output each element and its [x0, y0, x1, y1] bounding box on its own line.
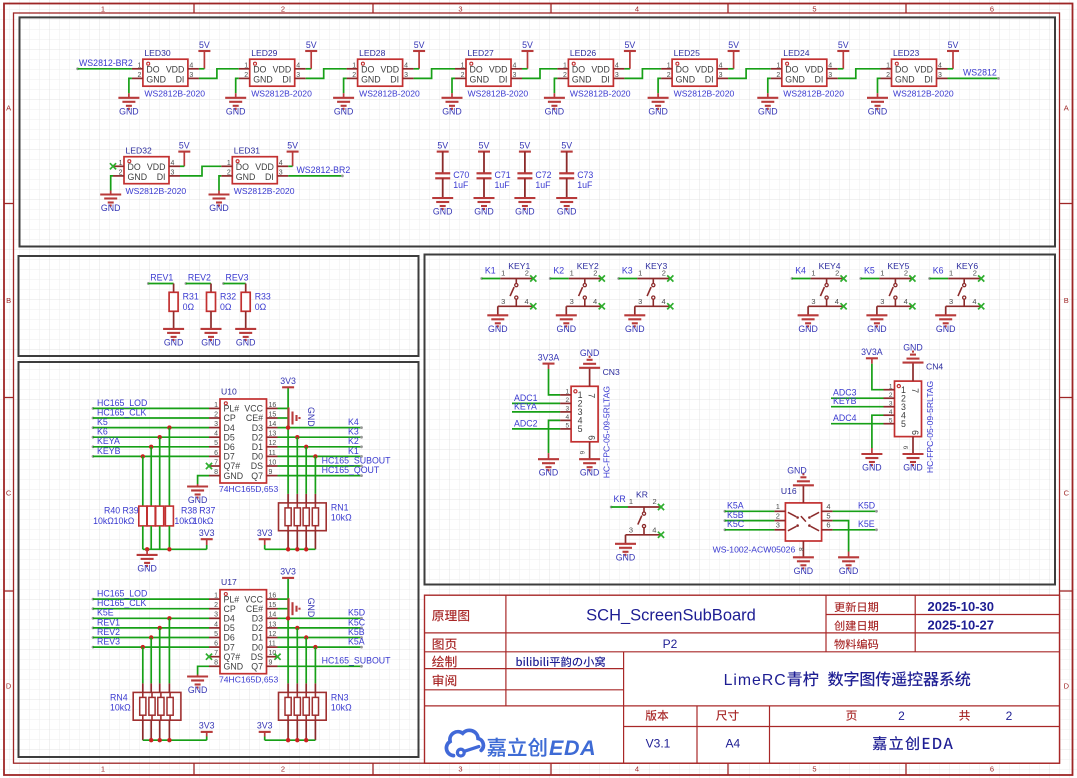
- svg-text:12: 12: [269, 631, 277, 638]
- net label KEYB wire to U10 pin 6: [92, 446, 209, 459]
- svg-text:GND: GND: [128, 172, 148, 182]
- capacitor C72 1uF with 5V and ground: [514, 140, 551, 216]
- svg-text:GND: GND: [474, 207, 494, 217]
- svg-text:5V: 5V: [948, 40, 959, 50]
- svg-text:REV2: REV2: [97, 627, 120, 637]
- svg-text:3: 3: [171, 170, 175, 177]
- svg-text:GND: GND: [119, 106, 139, 116]
- svg-text:1: 1: [629, 497, 633, 506]
- ground below CN3 pin 6: [579, 459, 600, 478]
- svg-text:K3: K3: [622, 265, 633, 275]
- svg-text:GND: GND: [794, 566, 814, 576]
- ground at LED23: [867, 78, 888, 116]
- svg-text:GND: GND: [572, 75, 592, 85]
- LED LED25 WS2812B-2020: [661, 48, 734, 98]
- svg-text:2: 2: [214, 411, 218, 418]
- svg-text:LED25: LED25: [674, 48, 700, 58]
- svg-text:C: C: [1064, 489, 1070, 498]
- svg-text:5V: 5V: [287, 140, 298, 150]
- svg-text:2: 2: [244, 72, 248, 79]
- svg-text:HC165_SUBOUT: HC165_SUBOUT: [322, 455, 392, 465]
- wires RN3 top: [288, 628, 315, 693]
- svg-text:3V3: 3V3: [280, 376, 296, 386]
- section box - LED chain: [20, 17, 1056, 246]
- shift register U10 74HC165D: [209, 387, 278, 495]
- svg-text:KR: KR: [614, 494, 626, 504]
- ground below CN4 pin 6: [903, 454, 924, 473]
- svg-text:GND: GND: [580, 468, 600, 478]
- svg-text:DI: DI: [176, 75, 185, 85]
- svg-text:HC165_LOD: HC165_LOD: [97, 398, 147, 408]
- svg-text:GND: GND: [101, 203, 121, 213]
- svg-text:DO: DO: [361, 65, 374, 75]
- svg-text:RN4: RN4: [110, 693, 128, 703]
- 5V power flag at LED31: [287, 140, 299, 166]
- ground at KEY6: [935, 306, 956, 334]
- svg-text:K6: K6: [97, 427, 108, 437]
- svg-text:12: 12: [269, 440, 277, 447]
- svg-text:VCC: VCC: [244, 404, 263, 414]
- svg-text:2: 2: [137, 72, 141, 79]
- svg-text:D0: D0: [252, 452, 263, 462]
- svg-text:LED32: LED32: [126, 146, 152, 156]
- wire LED27 DI to next LED: [522, 69, 557, 79]
- svg-text:11: 11: [269, 641, 276, 648]
- svg-text:3V3A: 3V3A: [538, 352, 560, 362]
- ground at KEY3: [624, 306, 645, 334]
- svg-text:4: 4: [279, 160, 283, 167]
- slide switch U16 WS-1002-ACW05026: [713, 485, 833, 557]
- svg-text:K6: K6: [933, 265, 944, 275]
- svg-text:KEY3: KEY3: [645, 261, 667, 271]
- svg-text:6: 6: [578, 451, 585, 455]
- svg-text:2025-10-27: 2025-10-27: [928, 618, 995, 633]
- svg-text:1: 1: [880, 268, 884, 277]
- net label K4 wire: [791, 265, 811, 280]
- svg-text:0Ω: 0Ω: [183, 302, 195, 312]
- title label 图页: [433, 639, 457, 650]
- svg-text:CP: CP: [224, 413, 236, 423]
- svg-text:2: 2: [889, 392, 893, 399]
- svg-text:REV3: REV3: [97, 637, 120, 647]
- svg-text:3: 3: [938, 72, 942, 79]
- svg-text:3: 3: [638, 297, 642, 306]
- capacitor C71 1uF with 5V and ground: [474, 140, 511, 216]
- net label K5 wire: [859, 265, 879, 280]
- svg-text:VDD: VDD: [489, 65, 508, 75]
- key switch KR: [626, 490, 665, 538]
- svg-text:REV1: REV1: [97, 617, 120, 627]
- svg-text:4: 4: [189, 63, 193, 70]
- svg-text:DS: DS: [251, 461, 263, 471]
- svg-text:3: 3: [880, 297, 884, 306]
- svg-text:2: 2: [352, 72, 356, 79]
- svg-text:2: 2: [898, 709, 905, 723]
- svg-text:2: 2: [653, 497, 657, 506]
- net label ADC4 wire to CN4 pin 5: [831, 413, 884, 424]
- svg-text:KEY5: KEY5: [887, 261, 909, 271]
- svg-text:4: 4: [565, 414, 569, 421]
- net label K5 wire to U10 pin 3: [92, 417, 209, 430]
- svg-text:D5: D5: [224, 432, 235, 442]
- svg-text:4: 4: [214, 431, 218, 438]
- svg-text:GND: GND: [226, 106, 246, 116]
- svg-text:7: 7: [910, 388, 920, 393]
- net label REV2 wire: [185, 273, 212, 293]
- svg-text:2: 2: [1006, 709, 1013, 723]
- svg-text:0Ω: 0Ω: [220, 302, 232, 312]
- svg-text:4: 4: [615, 63, 619, 70]
- svg-text:U17: U17: [221, 577, 237, 587]
- svg-text:GND: GND: [334, 106, 354, 116]
- svg-text:GND: GND: [137, 563, 157, 573]
- net label HC165_CLK wire to U17 pin 2: [92, 598, 209, 610]
- svg-text:4: 4: [826, 502, 830, 511]
- svg-text:2: 2: [281, 765, 285, 774]
- svg-text:GND: GND: [580, 348, 600, 358]
- svg-text:1: 1: [776, 63, 780, 70]
- svg-text:5: 5: [826, 511, 830, 520]
- svg-text:K3: K3: [348, 427, 359, 437]
- resistor network RN1 10k: [279, 503, 353, 531]
- svg-text:3: 3: [811, 297, 815, 306]
- net label K5D wire from U16 pin 4: [833, 501, 878, 513]
- svg-text:KEYB: KEYB: [833, 396, 857, 406]
- title value SCH_ScreenSubBoard: [586, 606, 756, 624]
- svg-text:KEYA: KEYA: [514, 401, 537, 411]
- svg-text:CN3: CN3: [603, 367, 620, 377]
- svg-text:13: 13: [269, 431, 277, 438]
- svg-text:GND: GND: [442, 106, 462, 116]
- svg-text:U10: U10: [221, 387, 237, 397]
- ground at CN3 pin 4: [538, 420, 560, 477]
- svg-text:5: 5: [812, 765, 816, 774]
- svg-text:D7: D7: [224, 642, 235, 652]
- svg-text:WS2812B-2020: WS2812B-2020: [126, 186, 187, 196]
- svg-text:DI: DI: [282, 75, 291, 85]
- svg-text:1: 1: [214, 402, 218, 409]
- svg-text:1: 1: [137, 63, 141, 70]
- svg-text:D6: D6: [224, 633, 235, 643]
- no-connect X at LED32 DO: [110, 163, 116, 169]
- section box - REV resistors: [19, 256, 419, 356]
- svg-text:HC-FPC-05-09-5RLTAG: HC-FPC-05-09-5RLTAG: [602, 386, 612, 479]
- svg-text:EDA: EDA: [549, 736, 596, 760]
- svg-text:3: 3: [828, 72, 832, 79]
- svg-text:GND: GND: [188, 495, 208, 505]
- wires RN3 bottom rail: [265, 720, 316, 742]
- svg-text:GND: GND: [936, 324, 956, 334]
- svg-text:C73: C73: [577, 170, 593, 180]
- wire pull resistor top x=160: [159, 437, 161, 506]
- svg-text:2: 2: [565, 397, 569, 404]
- svg-text:3V3: 3V3: [199, 721, 215, 731]
- ground at LED32: [100, 176, 121, 213]
- svg-text:4: 4: [404, 63, 408, 70]
- wire rail under R37-R40: [143, 526, 207, 552]
- svg-text:16: 16: [269, 402, 277, 409]
- svg-text:2: 2: [886, 72, 890, 79]
- svg-text:8: 8: [797, 547, 804, 551]
- wires RN4 top: [143, 618, 170, 692]
- resistor R33 0 ohm: [241, 292, 271, 312]
- svg-text:D4: D4: [224, 423, 235, 433]
- ground under R40 rail: [137, 549, 158, 573]
- svg-text:CE#: CE#: [246, 413, 263, 423]
- svg-text:A: A: [6, 104, 11, 113]
- svg-text:10kΩ: 10kΩ: [93, 516, 114, 526]
- svg-text:2: 2: [119, 170, 123, 177]
- svg-text:A: A: [1064, 104, 1069, 113]
- svg-text:VDD: VDD: [914, 65, 933, 75]
- svg-text:1: 1: [563, 63, 567, 70]
- svg-text:1: 1: [227, 160, 231, 167]
- title project name: [724, 671, 971, 689]
- svg-text:5V: 5V: [522, 40, 533, 50]
- svg-text:DI: DI: [924, 75, 933, 85]
- svg-text:K5E: K5E: [97, 608, 114, 618]
- svg-text:4: 4: [525, 297, 529, 306]
- net label KR wire: [610, 494, 628, 509]
- svg-text:1: 1: [886, 63, 890, 70]
- svg-text:DI: DI: [601, 75, 610, 85]
- svg-text:WS-1002-ACW05026: WS-1002-ACW05026: [713, 545, 796, 555]
- svg-text:KEY1: KEY1: [508, 261, 530, 271]
- ground below U16: [793, 557, 814, 576]
- svg-text:GND: GND: [787, 465, 807, 475]
- title value P2: [663, 637, 678, 651]
- svg-text:1: 1: [352, 63, 356, 70]
- title block grid: [425, 595, 1060, 763]
- svg-text:VDD: VDD: [273, 65, 292, 75]
- svg-text:4: 4: [635, 4, 639, 13]
- svg-text:3: 3: [629, 526, 633, 535]
- key switch KEY5: [877, 261, 916, 309]
- svg-text:1uF: 1uF: [535, 180, 551, 190]
- title value total 2: [1006, 709, 1013, 723]
- svg-text:8: 8: [214, 660, 218, 667]
- svg-text:5V: 5V: [414, 40, 425, 50]
- svg-text:REV2: REV2: [188, 273, 211, 283]
- svg-text:5: 5: [901, 419, 906, 429]
- ground at LED27: [442, 78, 463, 116]
- svg-text:2: 2: [667, 72, 671, 79]
- svg-text:LED30: LED30: [144, 48, 170, 58]
- svg-text:K2: K2: [348, 436, 359, 446]
- svg-text:HC165_CLK: HC165_CLK: [97, 598, 147, 608]
- svg-text:11: 11: [269, 450, 276, 457]
- ground above CN3 pin 7: [579, 348, 600, 368]
- svg-text:GND: GND: [557, 324, 577, 334]
- svg-text:GND: GND: [676, 75, 696, 85]
- svg-text:3: 3: [513, 72, 517, 79]
- svg-text:7: 7: [587, 393, 597, 398]
- svg-text:3: 3: [570, 297, 574, 306]
- svg-text:HC165_LOD: HC165_LOD: [97, 589, 147, 599]
- net label HC165_LOD wire to U10 pin 1: [92, 398, 209, 410]
- svg-text:C: C: [6, 489, 12, 498]
- svg-text:4: 4: [938, 63, 942, 70]
- svg-text:GND: GND: [224, 471, 244, 481]
- title label 创建日期: [834, 620, 878, 630]
- svg-text:VDD: VDD: [147, 162, 166, 172]
- net label K5B wire from U17: [278, 627, 365, 640]
- svg-text:D2: D2: [252, 432, 263, 442]
- no-connect X at U17 pin 7: [206, 654, 212, 660]
- wire LED26 DI to next LED: [624, 69, 661, 79]
- svg-text:1uF: 1uF: [495, 180, 511, 190]
- net label K1 wire from U10: [278, 446, 363, 459]
- net label K5A wire to U16 pin 1: [724, 501, 775, 513]
- net label REV3 wire to U17 pin 6: [92, 637, 209, 650]
- svg-text:6: 6: [990, 765, 994, 774]
- ground at LED30: [118, 78, 139, 116]
- svg-text:GND: GND: [625, 324, 645, 334]
- svg-text:4: 4: [835, 297, 839, 306]
- svg-text:74HC165D,653: 74HC165D,653: [219, 484, 278, 494]
- svg-text:K5B: K5B: [348, 627, 365, 637]
- title value 嘉立创EDA: [873, 736, 953, 750]
- svg-text:WS2812-BR2: WS2812-BR2: [297, 165, 351, 175]
- connector CN4 HC-FPC-05-09-5RLTAG: [884, 362, 944, 474]
- svg-text:2: 2: [227, 170, 231, 177]
- svg-text:WS2812B-2020: WS2812B-2020: [674, 89, 735, 99]
- svg-text:6: 6: [910, 430, 920, 435]
- svg-text:VDD: VDD: [381, 65, 400, 75]
- svg-text:DO: DO: [128, 162, 141, 172]
- net label WS2812 output wire: [948, 68, 1000, 80]
- net label KEYA wire to U10 pin 5: [92, 436, 209, 449]
- svg-text:13: 13: [269, 621, 277, 628]
- net label K5E wire from U16 pin 6: [833, 519, 878, 531]
- svg-text:1: 1: [101, 4, 105, 13]
- svg-text:15: 15: [269, 411, 277, 418]
- svg-text:DS: DS: [251, 652, 263, 662]
- svg-text:DI: DI: [814, 75, 823, 85]
- svg-text:K5: K5: [97, 417, 108, 427]
- title value 2025-10-30: [928, 599, 995, 614]
- svg-text:DI: DI: [157, 172, 166, 182]
- net label HC165_LOD wire to U17 pin 1: [92, 589, 209, 601]
- net label K3 wire from U10: [278, 427, 363, 440]
- svg-text:D1: D1: [252, 442, 263, 452]
- svg-text:2: 2: [461, 72, 465, 79]
- no-connect X at U10 pin 7: [206, 463, 212, 469]
- resistor R38 10k: [156, 506, 198, 527]
- wires RN1 bottom rail: [265, 531, 316, 552]
- svg-text:1: 1: [776, 502, 780, 511]
- title value bilibili平韵の小窝: [516, 656, 604, 667]
- svg-text:K1: K1: [485, 265, 496, 275]
- svg-text:4: 4: [972, 297, 976, 306]
- svg-text:10kΩ: 10kΩ: [331, 703, 352, 713]
- net label REV1 wire: [147, 273, 174, 293]
- svg-text:GND: GND: [146, 75, 166, 85]
- svg-text:DI: DI: [265, 172, 274, 182]
- LED LED24 WS2812B-2020: [771, 48, 844, 98]
- svg-text:GND: GND: [224, 662, 244, 672]
- svg-text:LED24: LED24: [783, 48, 809, 58]
- title label 绘制: [432, 656, 456, 668]
- svg-text:GND: GND: [903, 463, 923, 473]
- svg-text:3: 3: [214, 612, 218, 619]
- svg-text:LED26: LED26: [570, 48, 596, 58]
- svg-text:V3.1: V3.1: [646, 736, 671, 750]
- svg-text:VDD: VDD: [166, 65, 185, 75]
- svg-text:3: 3: [189, 72, 193, 79]
- svg-text:3: 3: [458, 4, 462, 13]
- svg-text:WS2812B-2020: WS2812B-2020: [468, 89, 529, 99]
- svg-text:3: 3: [719, 72, 723, 79]
- wire LED24 DI to next LED: [838, 69, 881, 79]
- ground at R31: [163, 311, 184, 347]
- 5V power flag at LED29: [305, 40, 317, 69]
- svg-text:5: 5: [214, 440, 218, 447]
- svg-text:5V: 5V: [728, 40, 739, 50]
- wire pull resistor top x=169: [168, 428, 170, 507]
- svg-text:WS2812B-2020: WS2812B-2020: [783, 89, 844, 99]
- svg-text:GND: GND: [862, 463, 882, 473]
- net label HC165_CLK wire to U10 pin 2: [92, 407, 209, 419]
- svg-text:DI: DI: [499, 75, 508, 85]
- svg-text:3: 3: [501, 297, 505, 306]
- resistor R32 0 ohm: [207, 292, 237, 312]
- svg-text:DO: DO: [253, 65, 266, 75]
- wire LED25 DI to next LED: [728, 69, 771, 79]
- ground at LED31: [209, 176, 230, 213]
- wire LED29 DI to next LED: [306, 69, 347, 79]
- svg-text:9: 9: [269, 469, 273, 476]
- svg-text:7: 7: [214, 459, 218, 466]
- ground at U16 pin 5: [833, 521, 860, 576]
- net label REV1 wire to U17 pin 4: [92, 617, 209, 630]
- svg-text:5V: 5V: [520, 140, 531, 150]
- LED LED29 WS2812B-2020: [239, 48, 312, 98]
- svg-text:WS2812-BR2: WS2812-BR2: [79, 58, 133, 68]
- svg-text:K5D: K5D: [858, 501, 875, 511]
- svg-text:DI: DI: [705, 75, 714, 85]
- 5V power flag at LED23: [947, 40, 959, 69]
- key switch KEY6: [946, 261, 985, 309]
- svg-text:5V: 5V: [479, 140, 490, 150]
- 5V power flag at LED25: [728, 40, 740, 69]
- net label K5A wire from U17: [278, 637, 365, 650]
- svg-text:4: 4: [296, 63, 300, 70]
- LED LED31 WS2812B-2020: [221, 146, 294, 197]
- svg-text:GND: GND: [253, 75, 273, 85]
- svg-text:3V3: 3V3: [257, 528, 273, 538]
- svg-text:GND: GND: [785, 75, 805, 85]
- svg-text:WS2812B-2020: WS2812B-2020: [234, 186, 295, 196]
- svg-text:R40: R40: [104, 506, 120, 516]
- svg-text:4: 4: [593, 297, 597, 306]
- svg-text:2: 2: [776, 511, 780, 520]
- svg-text:DO: DO: [676, 65, 689, 75]
- svg-text:D4: D4: [224, 614, 235, 624]
- resistor R40 10k: [93, 506, 147, 527]
- svg-text:2025-10-30: 2025-10-30: [928, 599, 995, 614]
- net label K2 wire from U10: [278, 436, 363, 449]
- net label K2 wire: [549, 265, 569, 280]
- title label 审阅: [433, 674, 457, 686]
- svg-text:LimeRC: LimeRC: [724, 672, 787, 689]
- svg-text:K5C: K5C: [348, 617, 366, 627]
- svg-text:D: D: [6, 682, 12, 691]
- net label K1 wire: [480, 265, 500, 280]
- svg-text:1: 1: [101, 765, 105, 774]
- net label K3 wire: [617, 265, 637, 280]
- wires RN4 bottom rail: [143, 720, 207, 742]
